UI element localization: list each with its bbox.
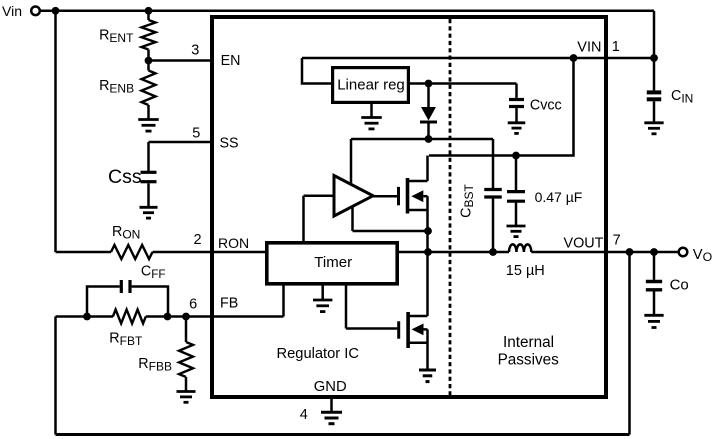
svg-text:5: 5 (192, 126, 200, 142)
svg-text:Internal: Internal (503, 334, 554, 351)
pin number 3 (191, 43, 199, 59)
node VIN-CIN junction (650, 54, 658, 62)
wire Cvcc-gnd stub (515, 108, 518, 122)
node Vin-drop junction (52, 7, 60, 15)
svg-text:3: 3 (191, 43, 199, 59)
node CBST-SW junction (489, 248, 497, 256)
pin label RON (218, 235, 249, 251)
wire buffer input (304, 196, 335, 242)
ground under Cvcc (508, 123, 526, 134)
resistor RON (111, 245, 153, 259)
capacitor CIN (647, 58, 662, 122)
ground under Linear reg (361, 104, 382, 129)
pin number 4 (300, 407, 308, 423)
svg-text:RON: RON (218, 235, 249, 251)
node buffer return junction (424, 227, 432, 235)
label RENB (99, 78, 134, 96)
svg-text:FB: FB (220, 296, 238, 312)
wire bootstrap rail (351, 139, 493, 188)
pin label SS (220, 135, 239, 151)
wire switch node (399, 251, 509, 254)
svg-text:Css: Css (108, 166, 142, 188)
svg-text:Passives: Passives (498, 351, 560, 368)
wire RON segment right (153, 251, 213, 254)
node VOUT-feedback junction (626, 248, 634, 256)
svg-text:VO: VO (693, 247, 712, 264)
label RFBT (109, 331, 143, 349)
pin label GND (314, 379, 347, 395)
inductor L1 15uH (509, 244, 531, 252)
wire VOUT (531, 251, 679, 254)
wire Q2 gate wire (346, 286, 397, 329)
pin number 5 (192, 126, 200, 142)
svg-text:SS: SS (220, 135, 239, 151)
wire buffer supply (350, 139, 353, 185)
svg-text:VOUT: VOUT (564, 235, 604, 251)
wire RON segment left (56, 251, 112, 254)
node diode anode junction (425, 80, 433, 88)
wire RON internal (212, 251, 265, 254)
ground under RENB (138, 120, 159, 132)
svg-text:1: 1 (612, 39, 620, 55)
svg-text:VIN: VIN (577, 40, 601, 56)
label Linear reg (337, 77, 405, 94)
svg-text:4: 4 (300, 407, 308, 423)
pin label EN (221, 53, 241, 69)
ground under CSS (140, 207, 158, 218)
svg-text:Cvcc: Cvcc (530, 98, 562, 114)
wire Linear reg output (410, 84, 517, 98)
node bootstrap junction (425, 135, 433, 143)
wire EN pin (149, 59, 213, 62)
node EN junction (145, 57, 153, 65)
svg-text:RON: RON (112, 224, 140, 242)
wire bottom feedback rail (56, 252, 630, 435)
wire Q1 gate lead (373, 195, 397, 198)
label Regulator IC (277, 346, 360, 362)
label Timer (314, 254, 352, 271)
wire buffer return (353, 206, 429, 231)
node switch-node junction (424, 248, 432, 256)
pin label VIN (577, 40, 601, 56)
label CSS (108, 166, 142, 188)
wire drain rail (429, 58, 574, 156)
svg-text:Timer: Timer (314, 254, 352, 271)
label 15uH (506, 263, 545, 279)
svg-text:EN: EN (221, 53, 241, 69)
ground under CIN (644, 123, 663, 134)
svg-text:RENT: RENT (99, 28, 134, 46)
wire FB mid segment (146, 315, 212, 318)
label Cvcc (530, 98, 562, 114)
pin label FB (220, 296, 238, 312)
wire Vin drop (54, 11, 57, 252)
svg-text:Co: Co (670, 276, 689, 293)
block Timer (267, 243, 397, 284)
wire SS pin (149, 142, 213, 172)
pin number 2 (193, 232, 201, 248)
terminal Vin (31, 7, 40, 16)
pin number 6 (189, 297, 197, 313)
transistor Q1 high-side MOSFET (399, 156, 428, 253)
wire feedback left drop (54, 317, 57, 435)
capacitor Co (646, 252, 662, 315)
ground under 0.47uF (507, 226, 526, 237)
capacitor Cvcc (509, 100, 524, 107)
label CFF (141, 263, 166, 281)
wire CBST bottom (492, 198, 495, 252)
svg-text:Linear reg: Linear reg (337, 77, 405, 94)
svg-text:Regulator IC: Regulator IC (277, 346, 360, 362)
capacitor CFF branch wire (87, 287, 168, 317)
ground under Timer (313, 286, 332, 312)
svg-text:RFBT: RFBT (109, 331, 143, 349)
svg-text:15 µH: 15 µH (506, 263, 545, 279)
capacitor CBST (484, 190, 502, 198)
resistor RFBT (113, 310, 146, 324)
ground under Co (644, 315, 663, 327)
label CBST (459, 184, 477, 218)
label Internal Passives (498, 334, 560, 368)
diode D1 bootstrap (420, 84, 437, 140)
label RON (112, 224, 140, 242)
ground pin 4 (321, 399, 342, 424)
transistor Q2 low-side MOSFET (399, 252, 428, 370)
wire VIN rail (302, 58, 654, 84)
label CIN (671, 88, 693, 106)
node RENT-top junction (145, 7, 153, 15)
node 0.47uF junction (512, 152, 520, 160)
svg-text:RENB: RENB (99, 78, 134, 96)
node RFBB junction (182, 313, 190, 321)
IC box Regulator IC (212, 17, 606, 397)
svg-text:Vin: Vin (2, 3, 22, 19)
capacitor CFF (121, 280, 130, 293)
label Vin (2, 3, 22, 19)
terminal VO (679, 248, 688, 257)
capacitor 0.47uF (507, 156, 525, 226)
wire top Vin rail (40, 11, 654, 58)
resistor RENT (142, 11, 156, 61)
block Linear reg (333, 68, 409, 103)
wire FB left segment (56, 315, 114, 318)
op-amp buffer U1 (334, 176, 373, 217)
label RENT (99, 28, 134, 46)
label RFBB (138, 356, 172, 374)
label VO (693, 247, 712, 264)
capacitor CSS (141, 172, 157, 181)
svg-text:GND: GND (314, 379, 347, 395)
resistor RENB (142, 61, 156, 120)
pin label VOUT (564, 235, 604, 251)
ground under RFBB (177, 392, 196, 403)
label Co (670, 276, 689, 293)
dashed internal-passives divider (449, 19, 452, 395)
node CFF-right junction (164, 313, 172, 321)
wire FB internal (212, 285, 284, 317)
svg-text:0.47 µF: 0.47 µF (535, 189, 583, 205)
node CFF-left junction (83, 313, 91, 321)
node VIN-0.47uF junction (570, 54, 578, 62)
svg-text:6: 6 (189, 297, 197, 313)
svg-text:CBST: CBST (459, 184, 477, 218)
pin number 1 (612, 39, 620, 55)
resistor RFBB (179, 317, 193, 392)
node VOUT-Co junction (650, 248, 658, 256)
pin number 7 (613, 232, 621, 248)
svg-text:2: 2 (193, 232, 201, 248)
svg-text:RFBB: RFBB (138, 356, 172, 374)
svg-text:CIN: CIN (671, 88, 693, 106)
ground under Q2 (419, 370, 436, 382)
svg-text:CFF: CFF (141, 263, 166, 281)
wire CSS-gnd stub (147, 183, 150, 207)
svg-text:7: 7 (613, 232, 621, 248)
label 0.47uF (535, 189, 583, 205)
